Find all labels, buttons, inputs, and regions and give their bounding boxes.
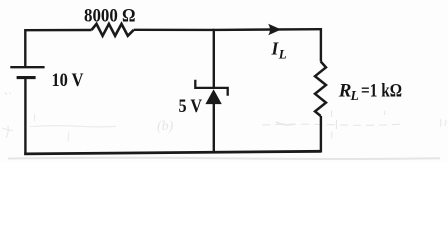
zener D1 triangle [205,89,221,104]
wire: left vertical (top) [24,29,26,67]
wire: top, left corner to resistor [25,29,92,32]
zener D1 cathode bar [195,80,227,96]
svg-text:(b): (b) [157,119,174,134]
wire: right vertical (top) [320,28,322,62]
faint bleed-through dashed line (left) [30,114,116,141]
wire: left vertical (bottom) [24,78,26,155]
faint left-edge specks [2,92,13,138]
wire: right vertical (bottom) [320,116,322,153]
wire: top, resistor to middle node [134,29,214,32]
battery V1 plate long [10,66,44,68]
svg-text:8000 Ω: 8000 Ω [84,5,136,26]
svg-text:L: L [350,88,359,103]
faint bottom scan band [8,158,440,159]
svg-text:10 V: 10 V [52,70,84,91]
svg-text:=1 kΩ: =1 kΩ [361,80,402,101]
svg-text:5 V: 5 V [179,96,203,117]
battery V1 plate short [17,76,36,79]
faint bleed-through dashed line (right) [262,111,446,139]
current arrow IL [268,24,281,36]
wire: top, middle node to right corner [214,28,321,31]
svg-text:R: R [338,80,352,101]
wire: middle vertical above zener [213,29,215,88]
resistor RL zigzag [315,62,326,117]
resistor 8000ohm zigzag [92,24,134,36]
wire: middle vertical below zener [213,104,215,153]
svg-text:L: L [278,47,287,62]
wire: bottom rail [24,151,321,154]
